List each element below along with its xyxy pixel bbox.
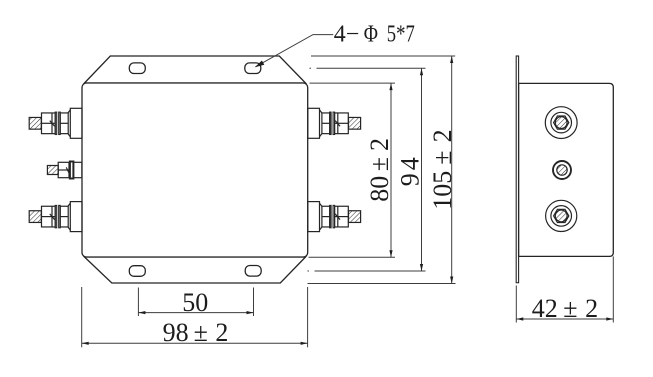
svg-text:42±2: 42±2 bbox=[532, 294, 598, 323]
svg-text:50: 50 bbox=[182, 288, 208, 317]
svg-text:Φ: Φ bbox=[364, 21, 378, 47]
svg-text:4−: 4− bbox=[334, 21, 360, 47]
svg-text:5*7: 5*7 bbox=[387, 21, 415, 47]
svg-text:98±2: 98±2 bbox=[163, 318, 229, 347]
svg-text:80±2: 80±2 bbox=[365, 138, 394, 202]
